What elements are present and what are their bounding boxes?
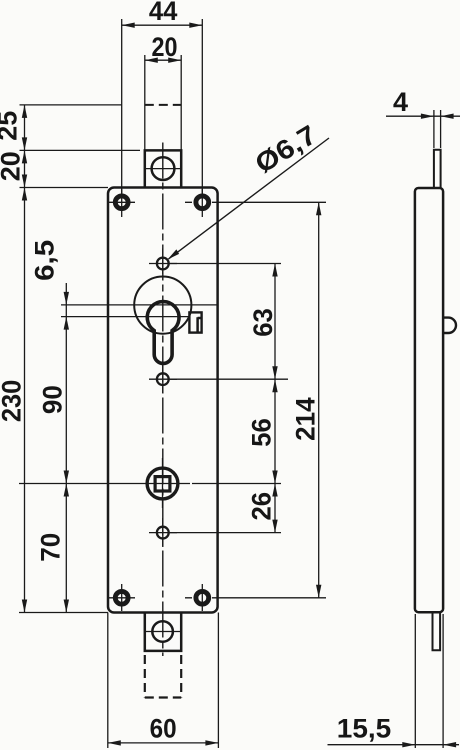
dim line 214 (318, 202, 320, 598)
svg-text:20: 20 (0, 151, 26, 181)
arrows 90 (64, 471, 69, 484)
ext lines 4 (434, 110, 441, 148)
small hole middle (157, 373, 169, 385)
small hole Ø6,7 top (157, 258, 169, 270)
svg-text:6,5: 6,5 (30, 240, 60, 281)
ext line spindle y483 (19, 483, 138, 485)
spindle follower circle (147, 468, 178, 499)
top bolt tab (145, 150, 181, 187)
svg-text:70: 70 (36, 533, 66, 562)
dim line 6,5/90/70 (65, 283, 67, 613)
bottom tab hole (152, 621, 173, 642)
arrows 6,5 (outside) (64, 292, 69, 330)
ext line body top y187 (20, 187, 109, 189)
dim line 20 (145, 59, 181, 61)
svg-text:230: 230 (0, 380, 26, 423)
svg-text:90: 90 (37, 385, 67, 414)
ext line 6,5 lower (61, 316, 189, 318)
dim line 25/20/230 (24, 105, 26, 613)
dim line 15,5 (328, 744, 460, 746)
arrows 15,5 (outside) (402, 742, 456, 747)
ext line hole y263 (170, 263, 281, 265)
svg-text:56: 56 (247, 418, 277, 447)
arrows 44 (122, 23, 203, 28)
dim line 4 (386, 115, 460, 117)
arrows 20 left (22, 150, 27, 187)
svg-text:15,5: 15,5 (337, 714, 392, 744)
arrows 214 (316, 202, 321, 598)
side top bolt rod (434, 150, 441, 188)
bottom tab extended position (dashed) (145, 655, 181, 698)
arrows 56 (272, 379, 277, 483)
svg-text:214: 214 (291, 397, 321, 441)
top tab hole (152, 157, 175, 180)
dashed bolt extended top (145, 104, 181, 106)
ext line hole y532 (170, 532, 281, 534)
arrows 25 (22, 105, 27, 150)
ext line body bottom y612 (19, 612, 108, 614)
lock body outline (108, 188, 218, 613)
vertical centerline (162, 143, 164, 657)
dim line 44 (122, 24, 203, 26)
small hole lower (157, 527, 169, 539)
dim line 60 (108, 742, 219, 744)
bottom bolt tab (145, 613, 181, 651)
ext line spindle right y483 (192, 483, 281, 485)
side case outline (415, 188, 443, 612)
ext lines 15,5 (415, 614, 443, 748)
ext lines 20 (145, 55, 181, 150)
ext lines 60 (108, 613, 219, 749)
arrows 70 (64, 484, 69, 613)
dim line 63/56/26 (274, 264, 276, 533)
svg-text:25: 25 (0, 111, 23, 141)
side cylinder bump (443, 318, 456, 333)
arrows 26 (272, 484, 277, 533)
arrows 63 (272, 264, 277, 380)
svg-text:63: 63 (248, 308, 278, 337)
ext line top screws y202 (212, 201, 326, 203)
arrows 60 (108, 740, 219, 745)
svg-text:26: 26 (247, 492, 277, 521)
latch stop pin (189, 312, 201, 332)
square spindle hole (155, 477, 170, 491)
arrows 230 (22, 188, 27, 613)
ext line bottom screws y597 (212, 597, 326, 599)
svg-text:4: 4 (393, 87, 408, 117)
euro profile cylinder (147, 302, 179, 364)
side bottom bolt rod (433, 612, 441, 650)
ext line hole y379 (170, 378, 288, 380)
svg-text:44: 44 (149, 0, 178, 26)
ext line tab top y151 (20, 149, 141, 151)
screw hole bottom-left (115, 591, 128, 604)
screw hole top-right (196, 196, 209, 209)
arrows 4 (outside) (421, 114, 454, 119)
leader line Ø6,7 (169, 138, 330, 259)
arrows 20 top (145, 58, 181, 63)
screw hole bottom-right (196, 591, 209, 604)
ext line 6,5 upper (61, 304, 218, 306)
ext lines 44 (122, 19, 203, 196)
escutcheon big circle (134, 277, 191, 334)
svg-text:60: 60 (150, 714, 177, 744)
leader arrow Ø6,7 (168, 249, 180, 259)
screw hole top-left (115, 196, 128, 209)
ext line bolt extended y105 (20, 104, 122, 106)
svg-text:20: 20 (152, 32, 178, 62)
